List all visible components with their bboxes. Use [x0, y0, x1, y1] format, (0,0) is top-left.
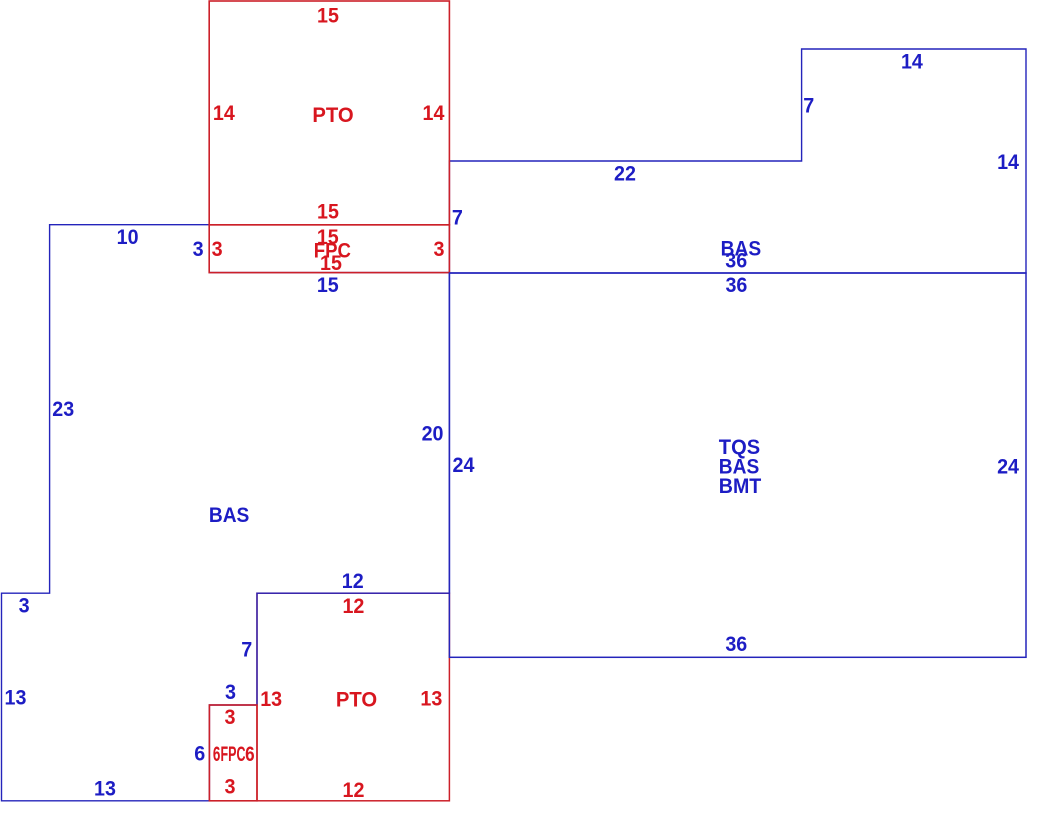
svg-text:7: 7 — [241, 638, 252, 662]
svg-text:15: 15 — [320, 251, 342, 275]
svg-text:PTO: PTO — [336, 688, 377, 712]
svg-text:PTO: PTO — [312, 103, 353, 127]
svg-text:36: 36 — [725, 273, 747, 297]
svg-text:3: 3 — [193, 237, 204, 261]
svg-text:12: 12 — [342, 569, 364, 593]
svg-text:3: 3 — [225, 705, 236, 729]
svg-text:3: 3 — [225, 775, 236, 799]
svg-text:3: 3 — [19, 593, 30, 617]
svg-text:7: 7 — [803, 94, 814, 118]
svg-text:36: 36 — [725, 249, 747, 273]
svg-text:15: 15 — [317, 200, 339, 224]
svg-text:10: 10 — [117, 225, 139, 249]
svg-text:BAS: BAS — [209, 503, 250, 527]
svg-text:12: 12 — [342, 594, 364, 618]
svg-text:7: 7 — [452, 205, 463, 229]
area outline FPC lower (red) — [209, 705, 257, 801]
area outline BAS left (blue) — [2, 225, 450, 801]
svg-text:BMT: BMT — [719, 474, 762, 498]
area outline PTO lower (red) — [257, 593, 449, 801]
svg-text:24: 24 — [453, 453, 475, 477]
area outline BAS upper-right (blue) — [449, 49, 1026, 273]
svg-text:13: 13 — [260, 687, 282, 711]
svg-text:13: 13 — [5, 686, 27, 710]
svg-text:36: 36 — [725, 632, 747, 656]
svg-text:6: 6 — [194, 741, 205, 765]
area outline PTO upper (red) — [209, 1, 449, 225]
svg-text:13: 13 — [94, 777, 116, 801]
svg-text:24: 24 — [997, 455, 1019, 479]
svg-text:14: 14 — [213, 101, 235, 125]
area outline TQS/BAS/BMT (blue) — [449, 273, 1026, 657]
svg-text:6: 6 — [245, 742, 255, 766]
svg-text:23: 23 — [52, 397, 74, 421]
svg-text:14: 14 — [997, 150, 1019, 174]
svg-text:14: 14 — [901, 50, 923, 74]
svg-text:15: 15 — [317, 4, 339, 28]
svg-text:20: 20 — [422, 421, 444, 445]
svg-text:15: 15 — [317, 273, 339, 297]
svg-text:13: 13 — [420, 687, 442, 711]
area outline FPC upper (red) — [209, 225, 449, 273]
svg-text:FPC: FPC — [221, 742, 246, 766]
svg-text:3: 3 — [434, 237, 445, 261]
svg-text:14: 14 — [423, 101, 445, 125]
svg-text:12: 12 — [343, 778, 365, 802]
svg-text:3: 3 — [212, 237, 223, 261]
svg-text:22: 22 — [614, 161, 636, 185]
svg-text:3: 3 — [225, 680, 236, 704]
svg-text:6: 6 — [213, 742, 221, 766]
